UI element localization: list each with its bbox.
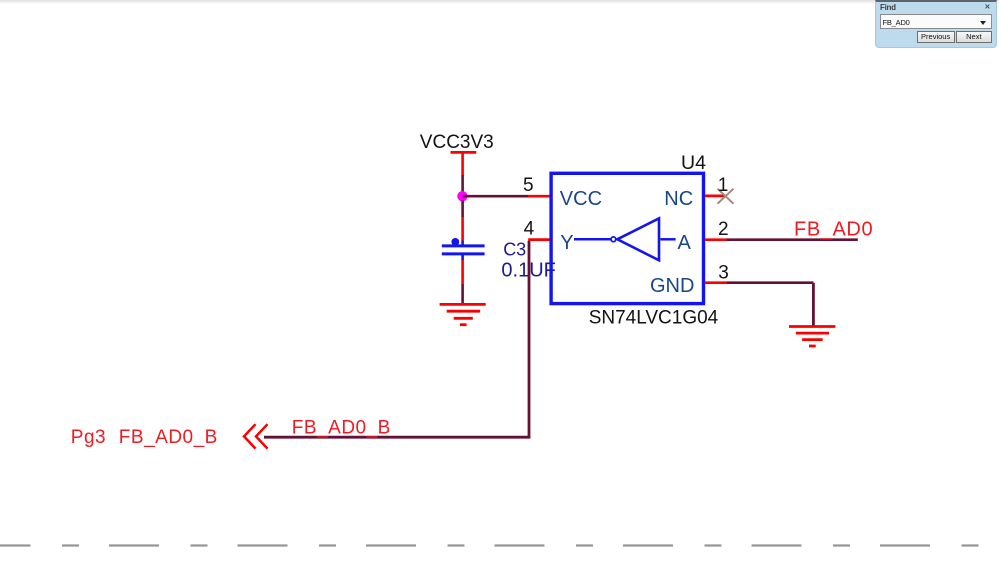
svg-text:NC: NC bbox=[664, 188, 693, 210]
wire: junction to pin 5 bbox=[463, 195, 528, 198]
svg-text:FB_AD0_B: FB_AD0_B bbox=[119, 427, 218, 448]
op-amp U4 body (inverter rectangle) bbox=[551, 173, 703, 303]
wire: chevron to pin 4 (horizontal run) bbox=[264, 241, 530, 439]
wire: pin 2 to net FB_AD0 bbox=[727, 238, 858, 241]
pin 4 stub bbox=[528, 238, 551, 241]
wire: VCC3V3 bar down to junction bbox=[461, 175, 464, 192]
svg-text:3: 3 bbox=[718, 263, 729, 284]
svg-text:5: 5 bbox=[523, 175, 534, 196]
Find dialog combo box bbox=[880, 14, 993, 29]
power symbol VCC3V3 bar bbox=[451, 151, 477, 175]
wire: pin 3 to right ground bbox=[727, 283, 813, 326]
ground (right) bbox=[789, 327, 835, 347]
svg-text:FB_AD0_B: FB_AD0_B bbox=[292, 417, 391, 438]
svg-text:1: 1 bbox=[718, 175, 729, 196]
svg-text:VCC3V3: VCC3V3 bbox=[420, 132, 494, 153]
pin 1 stub (NC) bbox=[705, 195, 726, 198]
svg-text:SN74LVC1G04: SN74LVC1G04 bbox=[589, 308, 719, 329]
pin 2 stub (A) bbox=[705, 238, 727, 241]
svg-text:4: 4 bbox=[524, 219, 535, 240]
svg-text:Y: Y bbox=[560, 232, 573, 254]
off-page connector chevron << bbox=[244, 424, 268, 448]
wire: junction down to capacitor bbox=[461, 201, 464, 241]
top toolbar shadow strip bbox=[0, 0, 999, 4]
svg-text:FB_AD0: FB_AD0 bbox=[794, 219, 873, 241]
Find dialog close button bbox=[985, 3, 991, 11]
ground (left) bbox=[440, 304, 486, 324]
inverter triangle with bubble bbox=[574, 218, 676, 260]
svg-text:U4: U4 bbox=[681, 152, 706, 174]
Find dialog title bbox=[880, 3, 896, 12]
pin 5 stub bbox=[528, 195, 551, 198]
Find dialog Previous button bbox=[917, 31, 955, 43]
pin 3 stub (GND) bbox=[705, 281, 727, 284]
capacitor C3 symbol bbox=[442, 238, 485, 260]
sheet border (dashed) bbox=[0, 544, 999, 546]
svg-text:VCC: VCC bbox=[560, 188, 602, 210]
junction dot bbox=[457, 191, 467, 201]
svg-text:Pg3: Pg3 bbox=[71, 427, 106, 448]
svg-text:C3: C3 bbox=[503, 240, 526, 260]
Find dialog Next button bbox=[956, 31, 993, 43]
no-connect X on pin 1 bbox=[718, 189, 734, 204]
Find dialog panel bbox=[875, 0, 997, 48]
svg-text:2: 2 bbox=[718, 219, 729, 240]
wire: capacitor to left ground bbox=[461, 260, 464, 304]
svg-text:GND: GND bbox=[650, 275, 694, 297]
svg-text:A: A bbox=[678, 232, 692, 254]
